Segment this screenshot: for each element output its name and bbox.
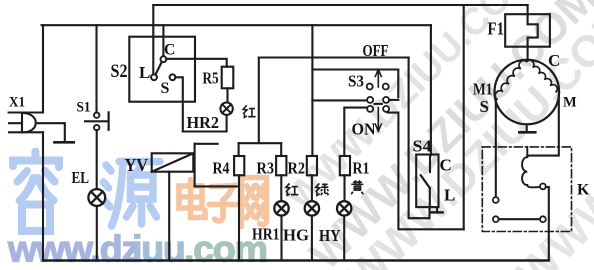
S3 ON arrow <box>375 108 381 132</box>
resistor R4 <box>234 156 244 175</box>
wire left bus from upper bus to plug <box>42 25 44 112</box>
switch S1 push-button <box>85 112 109 130</box>
svg-text:R4: R4 <box>213 159 230 178</box>
svg-text:OFF: OFF <box>363 41 389 60</box>
svg-text:HG: HG <box>283 225 309 244</box>
wire R1 to lamp HY <box>343 175 345 201</box>
label red char at HR1 <box>286 183 299 195</box>
relay contact B <box>493 216 499 222</box>
wire motor M down to relay coil net <box>527 92 559 156</box>
wire upper bus end drop to S4 C <box>430 25 432 155</box>
wire plug earth lead <box>36 123 65 141</box>
S3 bridge bar <box>374 103 382 105</box>
wire contact C2 to bottom bus right end <box>546 187 549 261</box>
wire R2 to lamp HG <box>311 175 313 201</box>
wire S1 drop from upper bus <box>95 25 97 112</box>
wire c5 to R1 <box>344 108 367 156</box>
lamp HG <box>305 201 319 215</box>
wire tee to R4 <box>238 143 240 156</box>
switch S4 internals <box>421 155 430 208</box>
wire F1 to motor C <box>527 47 529 60</box>
lamp HR2 <box>220 103 232 115</box>
switch S3 contact c6 <box>383 106 389 112</box>
wire upper bus <box>42 24 431 26</box>
solenoid YV <box>152 153 194 171</box>
relay contact D <box>540 216 546 222</box>
wire R2 drop from upper bus <box>311 25 313 156</box>
svg-text:EL: EL <box>72 168 90 187</box>
S3 OFF arrow <box>375 69 381 87</box>
wire contact B to D <box>499 218 540 220</box>
svg-text:S1: S1 <box>77 100 91 116</box>
resistor R5 <box>222 67 234 89</box>
svg-text:K: K <box>577 182 590 199</box>
wire YV riser to R4 bottom column <box>195 185 239 187</box>
switch S2 enclosure box <box>129 37 195 102</box>
relay K enclosure (dash-dot) <box>482 147 571 232</box>
wire c6 to motor start net <box>388 113 464 230</box>
wire S1 to lamp EL <box>96 130 98 188</box>
S2 contact C <box>161 56 167 62</box>
svg-text:R3: R3 <box>257 159 275 178</box>
svg-text:M1: M1 <box>473 80 493 99</box>
svg-text:YV: YV <box>125 155 149 175</box>
wire middle horizontal (OFF line) <box>259 56 409 58</box>
svg-text:L: L <box>139 63 150 82</box>
svg-text:C: C <box>164 42 175 59</box>
wire c4 stub <box>389 99 398 101</box>
wire motor S to relay contact A <box>495 102 497 198</box>
svg-text:S2: S2 <box>111 62 128 82</box>
wire top feeder line <box>153 4 527 6</box>
svg-text:R2: R2 <box>288 159 306 178</box>
wire from upper bus to S2 contact C <box>162 25 164 56</box>
wire feeder drop to R4 R3 <box>258 58 260 144</box>
svg-text:S: S <box>480 97 489 116</box>
resistor R3 <box>276 156 286 175</box>
label green char at HG <box>316 183 329 195</box>
lamp HR1 <box>274 201 288 215</box>
S2 contact S <box>170 74 176 80</box>
label red char at HR2 <box>243 105 256 117</box>
relay contact A <box>493 197 499 203</box>
wire R4 to bottom bus <box>238 175 240 260</box>
svg-text:ON: ON <box>352 120 377 139</box>
switch S2 lever <box>155 62 162 76</box>
resistor R1 <box>340 156 350 175</box>
wire S2 C to resistor R5 <box>166 59 227 67</box>
wire R3 to lamp HR1 <box>280 175 282 201</box>
wire right feeder drop <box>463 5 465 229</box>
svg-text:M: M <box>563 95 577 111</box>
svg-text:HY: HY <box>319 226 341 245</box>
wire S2 S to HR2 branch <box>175 77 183 131</box>
svg-text:L: L <box>444 186 455 205</box>
S4 earth stub and bar <box>432 208 443 213</box>
lamp EL <box>88 189 105 206</box>
svg-text:S: S <box>161 80 170 97</box>
relay contact C2 <box>540 184 546 190</box>
switch S4 box <box>416 155 438 208</box>
svg-text:HR1: HR1 <box>252 225 280 244</box>
wire plug top pin <box>9 111 43 113</box>
motor winding left (S) <box>495 60 527 99</box>
ground bar near plug <box>55 141 74 144</box>
wire plug bottom pin <box>9 131 43 133</box>
relay K coil <box>522 147 539 187</box>
svg-text:iuu: iuu <box>132 228 185 270</box>
fuse F1 thermal cutout <box>505 14 550 47</box>
svg-text:C: C <box>548 51 560 70</box>
svg-text:F1: F1 <box>488 19 505 39</box>
resistor R2 <box>307 156 317 175</box>
svg-text:www.dz: www.dz <box>7 228 139 270</box>
plug X1 body <box>22 113 36 133</box>
svg-text:HR2: HR2 <box>187 113 220 132</box>
wire lamp HG to bottom bus <box>311 216 313 261</box>
wire OFF line drop to S4 L <box>409 58 430 219</box>
switch S3 contact c3 <box>367 97 373 103</box>
S2 contact L <box>151 74 157 80</box>
svg-text:X1: X1 <box>9 95 25 111</box>
motor winding right (M) <box>527 60 557 92</box>
wire branch to S3 OFF contact c4 <box>312 70 398 98</box>
wire top line to fuse F1 <box>527 5 529 14</box>
svg-text:C: C <box>440 156 452 175</box>
wire plug middle pin <box>9 122 22 124</box>
wire lamp HR1 to bottom bus <box>280 216 282 261</box>
wire branch to S3 common c3 <box>312 99 366 101</box>
motor frame bar <box>519 124 535 132</box>
wire from top line to S2 contact L <box>152 5 154 75</box>
switch S3 contact c2 <box>383 84 389 90</box>
wire lamp EL to bottom bus <box>96 207 98 261</box>
wire tee to R3 <box>280 143 282 156</box>
wire R5 to lamp HR2 <box>226 88 228 101</box>
motor M1 stator circle <box>495 60 560 125</box>
svg-text:S3: S3 <box>348 71 364 90</box>
wire bottom bus <box>43 259 549 262</box>
svg-text:R1: R1 <box>353 159 370 178</box>
lamp HY <box>337 201 351 215</box>
wire stub from YV riser toward R4 (open end) <box>195 143 218 145</box>
switch S3 contact c1 <box>367 84 373 90</box>
svg-text:R5: R5 <box>203 68 219 87</box>
wire YV to bottom bus <box>168 172 170 261</box>
wire lamp HY to bottom bus <box>343 216 345 261</box>
switch S3 contact c5 <box>367 106 373 112</box>
wire YV right terminal riser <box>194 144 196 187</box>
wire left bus plug to bottom bus <box>42 132 44 260</box>
label yellow char at HY <box>351 180 363 194</box>
switch S3 contact c4 <box>383 97 389 103</box>
wire lamp HR2 to S branch <box>183 116 227 132</box>
svg-text:S4: S4 <box>413 137 433 156</box>
wire R4 R3 feed tee <box>239 142 282 144</box>
